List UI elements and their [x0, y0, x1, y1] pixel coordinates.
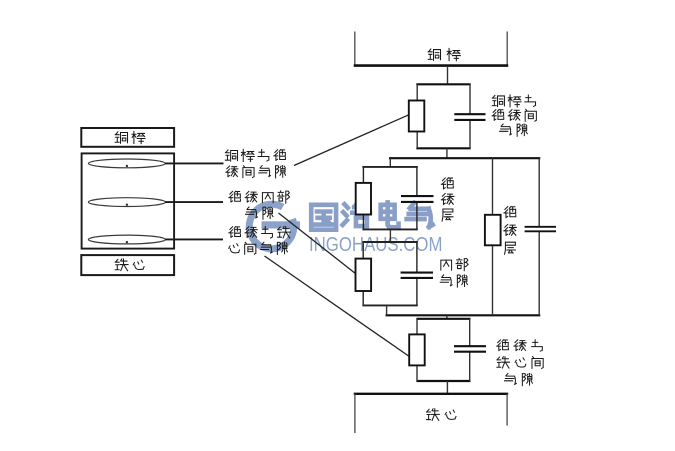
resistor R3 (internal air gap)	[356, 259, 372, 291]
lower-left loop (internal air gap)	[362, 242, 417, 305]
wire: network to bottom RC	[446, 315, 448, 319]
watermark logo ring (Guohao G mark)	[249, 204, 300, 249]
label: 绝缘与铁心间气隙	[229, 227, 291, 255]
label: 绝缘层 (left column)	[441, 178, 453, 221]
air gap ellipse 3	[88, 235, 165, 244]
air gap ellipse 2	[88, 198, 165, 207]
label: 内部气隙	[440, 258, 468, 287]
leader line ellipse1 to label	[165, 162, 224, 164]
wire stub to upper-left loop	[389, 158, 391, 167]
network bottom rail	[386, 314, 541, 316]
bottom electrode box 铁心 (open bottom)	[354, 394, 509, 433]
left stack: insulation body box	[82, 153, 175, 248]
svg-text:INGOHAUS.COM: INGOHAUS.COM	[309, 232, 442, 255]
resistor R5 (insulation / iron core gap)	[409, 334, 425, 365]
pointer line 1: label to top RC resistor	[294, 115, 409, 166]
wire stub between left loops	[389, 229, 391, 242]
left stack: iron core box 铁心	[81, 255, 174, 275]
label: 铜棒与绝缘间气隙	[225, 149, 285, 177]
capacitor C4 (insulation layer right)	[525, 227, 556, 232]
pointer line 2: label to internal gap resistor	[279, 213, 356, 274]
network top rail	[389, 157, 540, 159]
top RC loop (copper bar / insulation air gap)	[416, 84, 470, 148]
wire: bottom RC to iron core	[446, 381, 448, 394]
leader line ellipse3 to label	[165, 238, 223, 240]
pointer line 3: label to bottom RC resistor	[265, 256, 409, 356]
right loop branch wires	[493, 158, 540, 315]
air gap ellipse 1	[88, 159, 165, 168]
capacitor C1 (copper bar / insulation gap)	[454, 114, 485, 120]
label: 绝缘与铁心间气隙 (right)	[497, 340, 543, 386]
leader line ellipse2 to label	[165, 201, 223, 203]
upper-left loop (insulation layer)	[362, 167, 417, 230]
wire: top RC to network	[446, 148, 448, 158]
label: 绝缘内部气隙	[229, 191, 290, 219]
top electrode box 铜棒 (open top)	[354, 32, 509, 67]
wire: copper bar to top RC	[447, 66, 449, 84]
left stack: copper bar box 铜棒	[81, 128, 174, 147]
capacitor C3 (internal air gap)	[401, 273, 433, 278]
resistor R1 (copper bar / insulation gap)	[409, 101, 425, 132]
label: 绝缘层 (right column)	[504, 206, 516, 254]
capacitor C5 (insulation / iron core gap)	[454, 346, 486, 352]
resistor R2 (insulation layer)	[356, 183, 371, 215]
resistor R4 (insulation layer right)	[485, 215, 501, 246]
capacitor C2 (insulation layer)	[401, 196, 434, 202]
wire stub lower-left loop to bottom rail	[386, 305, 388, 315]
watermark text 国浩电气	[311, 202, 432, 229]
label: 铜棒与绝缘间气隙 (right)	[492, 95, 536, 136]
bottom RC loop (insulation / iron core air gap)	[416, 319, 470, 381]
